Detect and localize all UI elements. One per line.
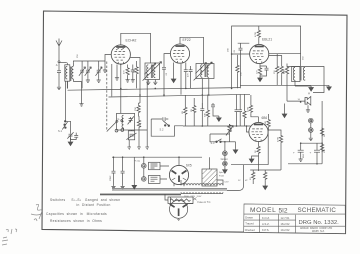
handwritten pencil note	[2, 204, 42, 245]
capacitor C11	[200, 103, 204, 126]
capacitor C16 25MF	[121, 157, 125, 189]
svg-text:250: 250	[77, 54, 79, 58]
svg-text:10K: 10K	[140, 123, 142, 127]
svg-text:ECH42: ECH42	[126, 39, 137, 43]
title block	[244, 204, 346, 234]
ground padder	[68, 138, 73, 146]
svg-text:5I2: 5I2	[279, 207, 288, 214]
ground mid	[132, 157, 137, 189]
resistor R16	[255, 146, 260, 172]
tube V2 EF22 IF amplifier	[170, 38, 190, 63]
wire secondary to speaker	[305, 67, 324, 93]
ground IFT1 b	[153, 80, 157, 85]
svg-text:MODEL: MODEL	[250, 207, 276, 214]
capacitor C2	[131, 65, 135, 83]
resistor R2	[134, 61, 139, 88]
wire aerial to coil	[59, 62, 67, 64]
svg-text:470: 470	[188, 73, 190, 77]
resistor R4	[137, 116, 142, 131]
svg-text:+: +	[310, 151, 312, 155]
wire V5 plates	[174, 184, 184, 187]
wire centre tap	[227, 165, 244, 191]
switch S2 loop	[151, 117, 183, 136]
svg-text:Field: Field	[219, 176, 225, 178]
capacitor C13	[235, 94, 239, 126]
resistor R9	[320, 128, 325, 138]
tube V3 EBL21 output	[250, 38, 273, 64]
resistor R12	[191, 98, 196, 126]
ground	[57, 86, 61, 90]
resistor R18	[204, 95, 209, 127]
svg-text:350: 350	[303, 56, 305, 60]
wire heater bus	[100, 193, 181, 196]
bus line 3	[240, 84, 329, 86]
svg-text:250K: 250K	[265, 120, 267, 126]
pickup socket PU2	[142, 168, 161, 183]
svg-text:470K: 470K	[278, 136, 280, 142]
svg-text:15K: 15K	[324, 149, 326, 153]
wire V3 plate lines	[269, 54, 301, 56]
svg-text:470: 470	[124, 70, 126, 74]
svg-text:2M: 2M	[191, 109, 193, 112]
svg-text:50K: 50K	[134, 69, 136, 73]
svg-text:WAIHI N.Z.: WAIHI N.Z.	[312, 230, 325, 233]
resistor R15	[268, 130, 282, 170]
svg-text:Spkr: Spkr	[219, 171, 224, 174]
wire V5 top	[178, 157, 180, 165]
svg-text:K.O.Z.: K.O.Z.	[262, 216, 270, 220]
capacitor C8 bypass	[260, 66, 269, 76]
svg-text:Green: Green	[221, 157, 229, 161]
chassis ground	[145, 130, 149, 150]
ground detector	[217, 116, 222, 121]
svg-text:Switches S1–S3 Ganged a: Switches S1–S3 Ganged and shown	[50, 198, 120, 202]
svg-text:3K: 3K	[255, 150, 257, 153]
tube V4 EBC33 detector	[249, 116, 268, 142]
svg-text:Checked: Checked	[245, 229, 255, 232]
resistor R13 grid V4	[248, 95, 259, 117]
pickup socket PU1	[134, 157, 160, 170]
resistor R20	[250, 170, 255, 184]
svg-text:S.3: S.3	[211, 141, 215, 145]
wire grid cap V1	[121, 33, 151, 63]
terminal circles osc	[115, 129, 124, 132]
svg-text:1K: 1K	[324, 134, 326, 137]
output transformer T2	[287, 56, 305, 86]
svg-text:Resistances shown in Ohms: Resistances shown in Ohms	[50, 219, 102, 223]
IF transformer IFT2	[194, 62, 214, 80]
B+ feed line right	[321, 101, 323, 164]
svg-text:470K: 470K	[255, 31, 257, 37]
IF transformer IFT1	[143, 62, 162, 81]
resistor R11 detector	[182, 95, 187, 126]
wire inner box	[238, 43, 250, 48]
ground speaker	[306, 109, 310, 113]
capacitor C6	[184, 63, 188, 89]
variable capacitor VC3	[96, 61, 103, 82]
svg-text:350: 350	[284, 70, 286, 74]
svg-text:S.1: S.1	[58, 129, 62, 133]
wire cathode V1	[116, 65, 118, 77]
wire bias node	[231, 165, 281, 170]
potentiometer VR1 volume	[226, 124, 233, 142]
choke field coil	[202, 157, 225, 186]
svg-text:Fuse on T.C.: Fuse on T.C.	[198, 201, 212, 204]
svg-text:10: 10	[298, 99, 301, 101]
filter capacitor C9 8MF	[293, 143, 305, 161]
wire bus AVC left	[67, 81, 69, 89]
svg-text:Capacities shown in Microf: Capacities shown in Microfarads	[46, 212, 107, 216]
variable capacitor VC2 trimmer	[85, 61, 92, 82]
aerial	[56, 39, 62, 68]
capacitor C15 25MF	[110, 157, 115, 189]
svg-text:A: A	[56, 63, 58, 67]
filter capacitor C10 8MF	[310, 143, 321, 164]
page border frame	[42, 11, 347, 234]
wire IFT2 secondary drops	[202, 79, 209, 109]
svg-text:25K: 25K	[135, 107, 137, 111]
variable capacitor VC1 tuning	[79, 61, 86, 88]
tube V5 rectifier	[169, 164, 191, 185]
resistor R3	[135, 103, 140, 117]
capacitor C7	[188, 66, 193, 88]
wire IFT1 secondary down	[135, 80, 148, 131]
transformer core lines	[112, 189, 227, 190]
resistor R8 cathode	[257, 66, 263, 82]
svg-text:DRG No. 1332.: DRG No. 1332.	[299, 220, 340, 226]
mains plug	[170, 197, 194, 221]
capacitor C3	[162, 61, 168, 97]
gang dashed line	[106, 62, 108, 132]
resistor R14	[265, 114, 270, 165]
svg-text:19-2-52: 19-2-52	[281, 228, 290, 232]
mains dropper box	[168, 197, 211, 204]
wire grid V4	[258, 117, 260, 123]
wire lamps drop	[224, 142, 226, 151]
svg-text:Traced: Traced	[245, 222, 254, 226]
svg-text:+: +	[293, 151, 295, 155]
ground V4	[249, 156, 258, 163]
ground grid return	[103, 61, 107, 72]
pilot lamp P2	[223, 156, 228, 174]
svg-text:12-7-51: 12-7-51	[281, 216, 290, 220]
speaker LS	[287, 93, 311, 109]
wire AVC bus	[183, 125, 251, 127]
svg-text:470K: 470K	[248, 106, 250, 112]
resistor R17 field	[284, 64, 289, 102]
wire V3 cathode	[260, 64, 267, 66]
svg-text:1M: 1M	[231, 128, 233, 131]
ground	[309, 86, 314, 91]
trimmer capacitor padder	[67, 132, 76, 139]
wire HT bus bottom	[288, 163, 322, 165]
ground	[115, 77, 119, 81]
capacitor	[74, 133, 78, 138]
svg-text:6B6: 6B6	[262, 116, 268, 120]
wire grid cap V2	[180, 37, 204, 63]
svg-text:250: 250	[274, 70, 276, 74]
svg-text:50K: 50K	[204, 113, 206, 117]
switch S3	[211, 139, 236, 145]
wire cathode drop V2	[180, 64, 182, 95]
capacitor C14	[238, 94, 242, 126]
svg-text:18-2-52: 18-2-52	[281, 222, 290, 226]
resistor R7	[280, 55, 286, 85]
wire osc grid drop	[120, 65, 122, 114]
resistor R5 plate V3	[255, 26, 260, 44]
wire socket link	[160, 166, 169, 179]
resistor R10	[320, 144, 325, 154]
svg-text:Drawn: Drawn	[245, 216, 253, 220]
capacitor C12	[211, 103, 219, 116]
wire plate V1 drop	[130, 58, 140, 104]
wire screen drop V1	[111, 64, 113, 96]
oscillator coil box L2	[116, 113, 135, 130]
svg-text:6.3V: 6.3V	[225, 182, 230, 184]
wire filter link	[301, 142, 322, 144]
wire pot link	[210, 134, 230, 142]
svg-text:1M: 1M	[182, 111, 184, 114]
wire padder	[65, 121, 70, 134]
svg-text:EF22: EF22	[183, 38, 191, 42]
wire V4 left pin	[247, 126, 249, 132]
svg-text:Pk Up: Pk Up	[134, 161, 141, 163]
capacitor C17 screen	[239, 48, 243, 88]
tube V1 ECH42 converter	[111, 39, 136, 65]
svg-text:K.P.S.: K.P.S.	[262, 228, 270, 232]
wire grid line	[73, 55, 111, 63]
svg-text:25K: 25K	[241, 72, 243, 76]
wire transformer to plug	[165, 194, 168, 200]
pilot lamp P1	[221, 151, 229, 161]
chassis ground	[137, 131, 141, 150]
transformer T3 HT winding	[181, 180, 223, 185]
ground IFT1 a	[146, 80, 150, 85]
jack J1	[309, 118, 314, 127]
top feed box B+	[232, 26, 301, 88]
notes text	[46, 198, 120, 223]
transformer T3 primary winding	[181, 192, 223, 194]
ground S3	[233, 142, 238, 154]
ground cathode V2	[171, 63, 176, 83]
svg-text:.05: .05	[234, 49, 236, 53]
wire V3 screen to B+	[232, 53, 250, 55]
resistor R19	[243, 94, 246, 126]
trimmer capacitor box	[126, 130, 136, 146]
ground under output	[327, 85, 332, 90]
switch S1	[58, 121, 68, 134]
bus line 2	[109, 94, 251, 97]
resistor R6	[274, 54, 279, 86]
aerial coil T1	[65, 63, 74, 89]
resistor R1	[124, 65, 130, 83]
wire S1 drop	[64, 81, 66, 120]
svg-text:A.S.Z.: A.S.Z.	[262, 222, 270, 226]
capacitor C1 aerial series	[57, 63, 61, 87]
ground plate bypass	[282, 104, 287, 118]
svg-text:G: G	[118, 118, 120, 121]
svg-text:5V HT: 5V HT	[238, 180, 248, 182]
wire HT bus left	[112, 156, 202, 158]
resistor R22 screen	[236, 55, 243, 88]
jack J2	[309, 128, 314, 141]
svg-text:6X5: 6X5	[186, 164, 192, 168]
svg-text:8MF: 8MF	[303, 153, 305, 158]
chassis ground	[127, 146, 131, 150]
wire V2 input	[164, 54, 170, 61]
svg-text:25MF: 25MF	[110, 175, 112, 181]
svg-text:EBL21: EBL21	[262, 38, 272, 42]
ground coil secondary	[73, 82, 83, 107]
svg-text:in Distant Position: in Distant Position	[77, 203, 111, 207]
svg-text:25K: 25K	[228, 48, 230, 52]
resistor R21	[263, 170, 268, 190]
bus line 1	[68, 88, 241, 91]
wire transformer bottom	[295, 85, 311, 87]
svg-text:S.2: S.2	[160, 128, 164, 132]
wire V4 cathode down	[258, 142, 260, 146]
switch S2 arm	[107, 122, 117, 132]
svg-text:.05: .05	[166, 72, 168, 76]
svg-text:SCHEMATIC: SCHEMATIC	[298, 207, 337, 214]
